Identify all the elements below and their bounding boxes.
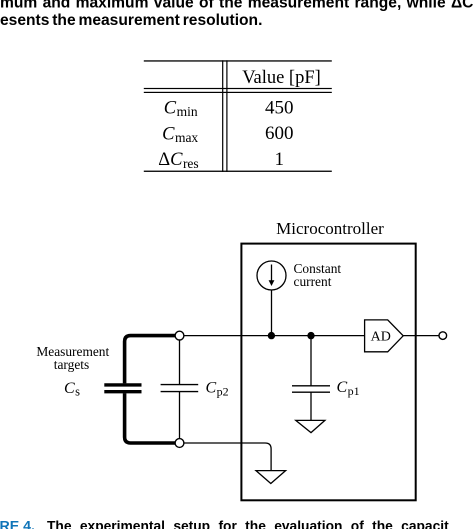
node: top measurement terminal (175, 331, 184, 340)
capacitor Cp1 bottom lead (310, 392, 312, 420)
svg-text:Value [pF]: Value [pF] (242, 68, 321, 88)
table values (265, 97, 294, 170)
svg-text:current: current (294, 274, 332, 289)
capacitor Cs plates (104, 383, 141, 386)
svg-text:Cs: Cs (64, 380, 80, 399)
svg-text:Microcontroller: Microcontroller (276, 219, 384, 238)
capacitor Cp2 top lead (179, 340, 181, 385)
current source I1 (257, 261, 286, 290)
wire: main horizontal net (184, 335, 365, 337)
capacitor Cp1 plates (292, 385, 330, 387)
junction: Cp1 node (307, 332, 314, 339)
svg-text:Cmin: Cmin (164, 98, 198, 119)
terminal: output pin (439, 332, 447, 340)
figure caption (0, 519, 449, 529)
current source label (294, 261, 342, 289)
capacitor Cp2 plates (161, 384, 199, 386)
junction: current source node (268, 332, 275, 339)
table row labels (158, 98, 199, 170)
svg-text:targets: targets (54, 357, 89, 372)
capacitor Cs thick bottom lead (125, 393, 177, 443)
ground: main ground (256, 471, 286, 484)
AD converter U2 (365, 320, 404, 352)
svg-text:600: 600 (265, 123, 294, 144)
label: Measurement targets (36, 344, 109, 372)
table: bottom rule (144, 171, 332, 172)
wire: bottom net to ground (184, 443, 271, 471)
svg-text:ΔCres: ΔCres (158, 150, 199, 171)
capacitor Cs thick top lead (125, 336, 177, 384)
paragraph text line 1 (0, 0, 474, 29)
svg-text:450: 450 (265, 97, 294, 118)
table: double rule below header (144, 88, 332, 89)
wire: current source to main net (271, 290, 273, 336)
table: vertical double rule (222, 60, 223, 172)
svg-text:1: 1 (275, 149, 285, 170)
wire: AD output (403, 335, 439, 337)
svg-text:Cp2: Cp2 (206, 380, 229, 399)
svg-text:Cp1: Cp1 (337, 379, 360, 398)
svg-text:Cmax: Cmax (162, 124, 198, 145)
microcontroller box U1 (241, 244, 415, 501)
ground: Cp1 ground (296, 420, 325, 432)
svg-text:The experimental setup for the: The experimental setup for the evaluatio… (47, 519, 449, 529)
capacitor Cp2 bottom lead (179, 392, 181, 439)
node: bottom measurement terminal (175, 439, 184, 448)
svg-text:RE 4.: RE 4. (0, 519, 35, 529)
table: top rule (144, 60, 332, 61)
svg-text:esents the measurement resolut: esents the measurement resolution. (0, 12, 262, 29)
svg-text:AD: AD (371, 329, 391, 344)
capacitor Cp1 top lead (310, 336, 312, 386)
